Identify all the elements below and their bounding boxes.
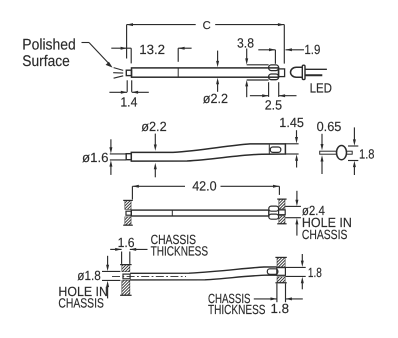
- light pipe row1 seam: [177, 68, 179, 77]
- light pipe row4 tip: [123, 274, 130, 279]
- dim 1.8 right arrow bottom: [301, 283, 303, 290]
- svg-text:13.2: 13.2: [139, 42, 165, 57]
- LED flange: [302, 65, 305, 79]
- light pipe row3 shaft: [131, 210, 268, 216]
- light pipe row1 polished tip: [126, 70, 131, 75]
- dim C line: [127, 24, 196, 26]
- dim 42.0 corner right: [278, 186, 280, 195]
- dim dia1.6 ref lines: [110, 153, 126, 155]
- light pipe row4 clip bead: [267, 269, 278, 275]
- light pipe row1 clip bead top: [269, 65, 279, 71]
- LED dome: [291, 67, 303, 77]
- svg-text:1.9: 1.9: [304, 42, 320, 57]
- dim 1.45 ref lines: [285, 143, 298, 145]
- light pipe row1 end cap: [279, 69, 285, 77]
- svg-text:42.0: 42.0: [192, 178, 217, 193]
- svg-text:C: C: [203, 20, 211, 32]
- light pipe row3 seam: [171, 210, 173, 216]
- dim 1.6 extensions: [121, 252, 123, 264]
- dim 3.8 arrow bottom: [246, 86, 248, 97]
- dim dia1.8 ref lines: [102, 270, 120, 272]
- svg-text:1.8: 1.8: [359, 147, 375, 162]
- chassis wall row3 left caps: [123, 199, 133, 201]
- chassis wall row4 right caps: [275, 256, 286, 258]
- dim 1.8 row2 arrow top: [353, 127, 355, 140]
- LED lead bottom: [305, 74, 322, 76]
- dim 1.8 right arrow top: [301, 254, 303, 261]
- svg-text:1.8: 1.8: [308, 265, 322, 280]
- chassis wall row4 left caps: [120, 264, 132, 266]
- dim 2.5 line: [250, 95, 269, 97]
- dim dia2.4 arrow bottom: [296, 224, 298, 236]
- light pipe row1 shaft: [132, 68, 279, 77]
- svg-text:ø2.2: ø2.2: [203, 91, 228, 106]
- svg-text:1.6: 1.6: [118, 235, 135, 250]
- dim 1.4 extensions: [126, 80, 128, 92]
- dim 1.8 row2 arrow bottom: [353, 167, 355, 176]
- dim 1.8 right ref lines: [285, 266, 305, 268]
- svg-text:Polished: Polished: [22, 36, 76, 53]
- dim 3.8 ref lines: [247, 64, 269, 66]
- dim 13.2 corner right: [177, 48, 179, 62]
- dim dia1.8 arrow bottom: [107, 287, 109, 299]
- svg-text:1.4: 1.4: [120, 94, 137, 109]
- svg-text:2.5: 2.5: [265, 97, 282, 112]
- dim dia2.2 row1 arrow top: [217, 51, 219, 62]
- light pipe row2 clip bead: [270, 147, 281, 152]
- dim 2.5 extensions: [268, 82, 270, 97]
- dim dia1.6 arrow top: [110, 139, 112, 148]
- svg-text:1.8: 1.8: [271, 301, 290, 316]
- svg-text:THICKNESS: THICKNESS: [151, 244, 209, 259]
- svg-text:ø2.2: ø2.2: [141, 119, 167, 134]
- svg-text:LED: LED: [310, 80, 332, 95]
- end view ellipse: [337, 146, 347, 160]
- dim 0.65 arrow bottom: [321, 161, 323, 174]
- light pipe row2 body: [131, 144, 285, 161]
- light pipe row1 clip bead bottom: [269, 74, 279, 80]
- svg-text:ø1.8: ø1.8: [77, 268, 101, 283]
- dim 0.65 arrow top: [321, 134, 323, 145]
- dim dia2.4 ref lines: [285, 205, 301, 207]
- light pipe row3 clip bead bottom: [269, 214, 279, 219]
- dim dia2.2 row1 arrow bottom: [217, 84, 219, 92]
- end view tab right: [347, 151, 353, 154]
- dim 1.45 arrow top: [296, 130, 298, 137]
- light pipe row3 tip: [126, 211, 131, 215]
- dim 1.9 line left: [258, 49, 275, 51]
- dim 1.8 row2 ref lines: [348, 145, 358, 147]
- dim dia1.8 arrow top: [107, 256, 109, 265]
- polished surface rays: [114, 68, 124, 71]
- dim 1.8 bottom extensions: [276, 284, 278, 303]
- light pipe row3 end cap: [279, 210, 286, 215]
- light pipe row4 body: [130, 267, 277, 280]
- dim 42.0 corner left: [131, 186, 133, 199]
- svg-text:CHASSIS: CHASSIS: [58, 296, 104, 311]
- dim dia2.2 row2 arrow top: [154, 134, 156, 145]
- dim 1.45 arrow bottom: [296, 160, 298, 167]
- svg-text:ø1.6: ø1.6: [82, 150, 109, 165]
- polished surface leader: [82, 42, 90, 44]
- dim dia1.6 arrow bottom: [110, 166, 112, 175]
- dim 1.8 bottom line: [254, 298, 277, 300]
- svg-text:CHASSIS: CHASSIS: [302, 227, 348, 242]
- end view tab left: [320, 151, 337, 154]
- dim C extension right: [283, 25, 285, 64]
- dim 3.8 arrow top: [246, 49, 248, 60]
- light pipe row2 tip: [126, 154, 131, 160]
- LED lead top: [305, 68, 327, 70]
- dim 42.0 line: [132, 185, 185, 187]
- dim 1.9 line right: [286, 49, 305, 51]
- dim 1.9 corner: [274, 50, 276, 64]
- svg-text:0.65: 0.65: [317, 119, 342, 134]
- svg-text:THICKNESS: THICKNESS: [208, 302, 266, 317]
- svg-text:3.8: 3.8: [237, 35, 254, 50]
- dim 13.2 corner left: [130, 48, 132, 63]
- dim 1.4 line: [109, 91, 127, 93]
- svg-text:1.45: 1.45: [279, 115, 304, 130]
- dim dia2.4 arrow top: [296, 191, 298, 201]
- dim C extension left: [126, 25, 128, 59]
- chassis wall row3 right caps: [277, 198, 286, 200]
- dim dia2.2 row2 arrow bottom: [154, 169, 156, 178]
- dim 1.6 line: [110, 248, 121, 250]
- center line row4: [112, 276, 186, 278]
- light pipe row2 end seam: [268, 145, 270, 155]
- dim 13.2 line left: [111, 47, 131, 49]
- svg-text:Surface: Surface: [22, 53, 70, 70]
- light pipe row3 clip bead top: [269, 206, 279, 211]
- light pipe row4 end cap: [277, 268, 286, 276]
